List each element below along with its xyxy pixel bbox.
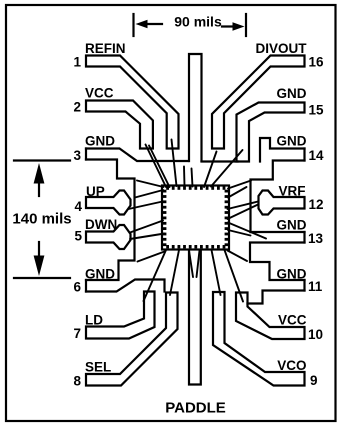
dimension 90 mils right tick (245, 14, 247, 36)
wire SEL pin8 (170, 250, 179, 295)
wire VCC pin2 b (149, 146, 170, 188)
pin 9 VCO pad and trace (213, 292, 305, 386)
pin 6 GND pad left closure (85, 280, 87, 292)
wire GND pin3 (137, 181, 164, 188)
wire GND pin14 b (228, 187, 247, 198)
pin 15 GND pad and trace (237, 103, 305, 162)
dimension 90 mils left tick (132, 14, 134, 36)
svg-text:GND: GND (85, 134, 115, 149)
chip pads left column (163, 190, 166, 193)
chip pads top row (166, 186, 169, 189)
pin 3 GND pad top edge and ground rail (86, 149, 189, 162)
wire DIVOUT pin16 (204, 152, 217, 188)
pin 13 GND pad top edge (251, 231, 305, 233)
svg-text:VCC: VCC (85, 86, 114, 101)
wire UP pin4 a (135, 190, 163, 198)
dimension 90 mils right arrow (222, 25, 236, 27)
wire GND pin11 (228, 251, 248, 262)
wire GND pin6 (138, 252, 165, 262)
svg-text:10: 10 (308, 327, 323, 342)
wire VCC pin10 (225, 250, 244, 302)
wire paddle bottom a (189, 251, 193, 278)
chip pads right column (225, 190, 228, 193)
pin 7 LD pad and trace (86, 292, 155, 339)
svg-text:3: 3 (73, 148, 81, 163)
svg-text:14: 14 (309, 148, 325, 163)
svg-text:GND: GND (277, 267, 307, 282)
svg-text:GND: GND (277, 134, 307, 149)
wire REFIN pin1 (172, 140, 177, 187)
dimension 140 mils up arrow (38, 182, 40, 196)
svg-text:8: 8 (73, 374, 81, 389)
wire GND pin14 a (228, 181, 251, 189)
pin 10 VCC pad and trace (236, 293, 305, 340)
pin 2 VCC pad and trace (86, 101, 153, 149)
svg-text:VCO: VCO (277, 358, 306, 373)
wire DWN pin5 a (130, 221, 163, 233)
wire GND pin13 b (228, 230, 251, 236)
svg-text:12: 12 (309, 197, 324, 212)
svg-text:90 mils: 90 mils (174, 14, 222, 30)
pin 13 pad right closure (303, 232, 305, 243)
chip pads bottom row (166, 245, 169, 248)
svg-text:5: 5 (74, 229, 82, 244)
svg-text:GND: GND (277, 86, 307, 101)
dimension 140 mils down arrow (38, 242, 40, 257)
svg-text:LD: LD (85, 313, 103, 328)
svg-text:16: 16 (309, 55, 325, 70)
pin 14 GND pad top edge with hook arm (260, 138, 305, 162)
svg-text:VCC: VCC (278, 313, 307, 328)
svg-text:GND: GND (85, 267, 115, 282)
chip U1 package outline (162, 186, 229, 250)
dimension 140 mils top line (14, 159, 70, 161)
pin 6 pad bottom edge (86, 280, 165, 292)
dimension 140 mils bottom line (14, 277, 70, 279)
svg-text:VRF: VRF (279, 184, 306, 199)
svg-text:11: 11 (308, 279, 323, 294)
pin 8 SEL pad and trace (86, 293, 178, 386)
svg-text:140 mils: 140 mils (12, 211, 71, 228)
pin 13 pad bottom edge and plane step to pin 11 (250, 243, 305, 281)
svg-text:4: 4 (74, 199, 82, 214)
svg-text:9: 9 (310, 373, 318, 388)
paddle top trace (189, 54, 202, 161)
svg-text:PADDLE: PADDLE (165, 400, 226, 417)
pin 12 VRF pad with arrow cutout (259, 191, 305, 215)
pin 11 GND pad right closure (303, 280, 305, 291)
pin 11 pad bottom edge with step (248, 291, 305, 304)
pin 16 DIVOUT pad and trace (212, 56, 305, 149)
svg-text:DIVOUT: DIVOUT (255, 41, 307, 56)
svg-text:2: 2 (73, 100, 81, 115)
svg-text:15: 15 (309, 103, 325, 118)
wire GND pin13 a (228, 223, 266, 239)
svg-text:7: 7 (73, 326, 81, 341)
svg-text:1: 1 (73, 55, 81, 70)
pin 14 pad right closure (303, 149, 305, 161)
pin 14 pad bottom edge and right ground plane boundary (251, 161, 305, 233)
wire GND pin15 (211, 150, 243, 187)
chip perimeter pads (163, 186, 228, 248)
pin 4 UP pad with arrow cutout (86, 191, 131, 215)
wire VCO pin9 (212, 250, 221, 295)
wire UP pin4 b (129, 202, 163, 210)
wire paddle top a (183, 167, 186, 187)
svg-text:GND: GND (277, 218, 307, 233)
pin 5 DWN pad with arrow cutout (86, 225, 131, 249)
wire LD pin7 (144, 250, 167, 301)
ground rail right of paddle (202, 160, 238, 162)
dimension 90 mils left arrow (144, 23, 162, 25)
svg-text:6: 6 (73, 280, 81, 295)
wire paddle top b (192, 169, 193, 187)
pin 1 REFIN pad and trace (86, 56, 179, 149)
wire VCC pin2 a (146, 145, 167, 188)
svg-text:REFIN: REFIN (85, 41, 126, 56)
wire paddle bottom b (197, 251, 200, 278)
paddle bottom trace (189, 251, 201, 385)
wire VRF pin12 b (228, 205, 259, 220)
wire DWN pin5 b (130, 234, 165, 240)
svg-text:13: 13 (308, 231, 324, 246)
wire VRF pin12 a (228, 202, 259, 210)
pin 3 pad left closure (85, 149, 87, 160)
svg-text:SEL: SEL (85, 360, 111, 375)
pin 3 pad bottom edge and left ground plane boundary (86, 160, 135, 281)
svg-text:UP: UP (86, 184, 105, 199)
svg-text:DWN: DWN (85, 217, 117, 232)
